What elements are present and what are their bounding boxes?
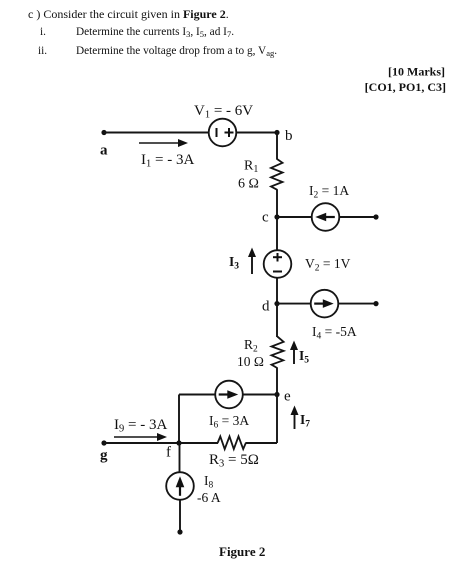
voltage source V2 <box>264 250 351 278</box>
svg-text:i.: i. <box>40 26 46 38</box>
wire I4 to end dot <box>338 303 376 305</box>
wire V1 to node b <box>236 132 277 134</box>
current source I2 <box>309 183 349 231</box>
problem statement line 1 <box>28 7 229 21</box>
resistor R1 <box>238 159 283 192</box>
terminal dot right of I2 <box>373 214 378 219</box>
svg-text:d: d <box>262 299 270 315</box>
figure caption <box>219 544 265 559</box>
wire I2 to end dot <box>339 216 376 218</box>
svg-text:Figure 2: Figure 2 <box>219 544 265 559</box>
wire e to I6 <box>243 394 277 396</box>
svg-text:10 Ω: 10 Ω <box>237 354 264 369</box>
terminal dot bottom <box>177 529 182 534</box>
problem statement line i <box>40 26 234 39</box>
current source I6 <box>209 381 249 431</box>
current arrow I5 <box>290 341 309 366</box>
wire R1 to node c <box>276 189 278 217</box>
node g <box>100 440 108 463</box>
current arrow I9 <box>114 417 167 441</box>
current source I4 <box>311 290 357 342</box>
node b <box>274 128 292 144</box>
svg-text:V1 = - 6V: V1 = - 6V <box>194 103 253 121</box>
svg-text:c ) Consider the circuit given: c ) Consider the circuit given in Figure… <box>28 7 229 21</box>
wire corner up to e <box>276 395 278 444</box>
wire V2 to node d <box>276 278 278 304</box>
node d <box>262 299 280 315</box>
svg-text:ii.: ii. <box>38 45 47 57</box>
marks label <box>365 65 446 95</box>
current arrow I1 <box>139 139 194 170</box>
wire f to R3 <box>179 442 218 444</box>
current source I8 <box>166 472 221 505</box>
wire c to V2 <box>276 217 278 251</box>
wire a to V1 <box>104 132 209 134</box>
wire d to I4 <box>277 303 311 305</box>
voltage source V1 <box>194 103 253 146</box>
terminal dot right of I4 <box>373 301 378 306</box>
svg-text:a: a <box>100 143 108 159</box>
resistor R3 <box>209 436 259 469</box>
wire corner down to f <box>178 395 180 444</box>
wire c to I2 <box>277 216 312 218</box>
resistor R2 <box>237 337 284 370</box>
svg-text:[CO1, PO1, C3]: [CO1, PO1, C3] <box>365 80 446 94</box>
svg-text:g: g <box>100 448 108 464</box>
wire g to f <box>104 442 179 444</box>
svg-text:f: f <box>166 445 171 461</box>
svg-text:e: e <box>284 389 291 405</box>
node c <box>262 210 280 226</box>
svg-text:-6 A: -6 A <box>197 490 221 505</box>
wire R3 to right corner <box>245 442 277 444</box>
current arrow I7 <box>291 406 311 430</box>
svg-text:c: c <box>262 210 269 226</box>
wire b to R1 <box>276 133 278 160</box>
wire d to R2 <box>276 304 278 337</box>
svg-text:b: b <box>285 128 293 144</box>
svg-text:Determine the voltage drop fro: Determine the voltage drop from a to g, … <box>76 45 277 58</box>
svg-text:Determine the currents I3, I5,: Determine the currents I3, I5, ad I7. <box>76 26 234 39</box>
wire f down to I8 <box>179 443 181 473</box>
node a <box>100 130 108 159</box>
current arrow I3 <box>229 248 256 275</box>
wire I6 to left corner <box>179 394 215 396</box>
wire R2 to node e <box>276 368 278 395</box>
node f <box>166 440 182 460</box>
svg-text:V2 = 1V: V2 = 1V <box>305 256 351 274</box>
svg-text:[10 Marks]: [10 Marks] <box>388 65 445 79</box>
svg-text:6 Ω: 6 Ω <box>238 177 259 192</box>
svg-text:R3 = 5Ω: R3 = 5Ω <box>209 452 259 470</box>
wire I8 to end dot <box>179 500 181 532</box>
problem statement line ii <box>38 45 277 58</box>
node e <box>274 389 291 405</box>
